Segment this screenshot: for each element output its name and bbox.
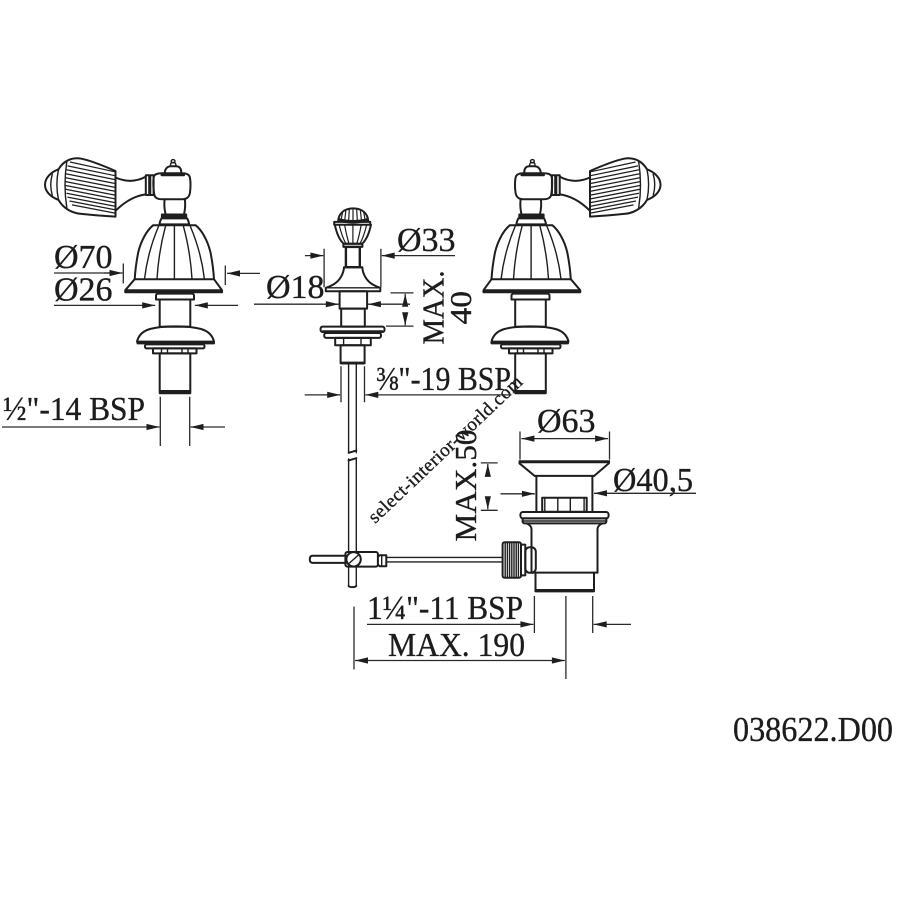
left handle escutcheon base band xyxy=(137,341,216,344)
dim MAX.50 ticks and arrows xyxy=(481,463,498,510)
svg-text:40: 40 xyxy=(443,291,478,325)
svg-text:Ø26: Ø26 xyxy=(54,272,113,309)
drain top flange rim xyxy=(519,460,610,463)
pop-up rod upper segment xyxy=(349,365,357,453)
pop-up rod lower segment xyxy=(349,459,357,551)
dim Ø63 extension lines xyxy=(520,432,610,460)
pivot clamp screw xyxy=(346,552,360,566)
left handle spindle body xyxy=(153,173,190,199)
left handle bell skirt base band xyxy=(124,290,223,293)
pop-up trumpet base xyxy=(326,267,381,291)
left handle crystal knob xyxy=(45,158,116,216)
svg-text:Ø70: Ø70 xyxy=(54,239,113,276)
dim Ø40,5 arrows xyxy=(501,493,535,495)
dim Ø26 leader and arrows xyxy=(54,304,155,306)
dim MAX. 190 leader and arrows xyxy=(355,660,450,662)
dim one and quarter BSP extension lines xyxy=(534,596,592,633)
pop-up knob shoulder xyxy=(334,222,370,225)
rod below clamp xyxy=(349,567,357,586)
dimension annotations xyxy=(2,222,696,679)
svg-text:MAX. 190: MAX. 190 xyxy=(388,627,525,664)
pop-up flange plate xyxy=(321,327,385,332)
drain knurled rod nut xyxy=(503,542,521,578)
svg-text:Ø18: Ø18 xyxy=(266,269,325,306)
pop-up knob collar xyxy=(343,244,362,247)
dim Ø63 arrows xyxy=(521,438,563,440)
drain flange plate 2 xyxy=(523,518,607,523)
svg-text:⅜"-19 BSP: ⅜"-19 BSP xyxy=(376,361,511,398)
dim three eighth BSP extension lines xyxy=(341,366,365,402)
pop-up knob cap xyxy=(338,208,368,220)
left handle threaded tailpiece xyxy=(160,353,191,391)
drain body xyxy=(527,523,603,572)
left handle waist xyxy=(164,199,185,213)
horizontal rod long xyxy=(386,557,502,562)
dim MAX.40 ticks and arrows xyxy=(386,293,414,326)
left handle spindle finial xyxy=(165,166,182,173)
right handle group (mirror of left) xyxy=(482,158,660,394)
pop-up knob body xyxy=(335,225,371,244)
svg-text:1¼"-11 BSP: 1¼"-11 BSP xyxy=(367,590,523,627)
left handle bell xyxy=(135,225,214,279)
pop-up knob cap base band xyxy=(338,220,368,222)
dim half inch BSP leader and arrows xyxy=(2,426,160,428)
dim Ø70 extension lines xyxy=(123,264,225,286)
dim Ø70 leader and arrows xyxy=(54,272,110,274)
drain flange cone xyxy=(519,463,609,476)
middle pop-up control group xyxy=(310,208,503,587)
drain castellated ring xyxy=(542,498,587,512)
pop-up flange plate 2 xyxy=(324,333,381,338)
dim half inch BSP extension lines xyxy=(160,397,189,446)
left handle stem (Ø26) xyxy=(160,300,191,327)
svg-text:Ø33: Ø33 xyxy=(397,222,456,259)
left handle lever neck xyxy=(116,177,146,211)
left handle dome escutcheon xyxy=(137,326,214,341)
svg-text:038622.D00: 038622.D00 xyxy=(733,710,893,749)
left handle base plate xyxy=(145,344,205,348)
dim three eighth BSP leader and arrows xyxy=(305,394,341,396)
pop-up valve body xyxy=(341,345,365,363)
pivot clamp block xyxy=(345,552,378,567)
left handle group xyxy=(45,158,223,394)
horizontal rod left part xyxy=(310,556,346,563)
pop-up locknut xyxy=(335,338,371,345)
left handle spindle top band xyxy=(161,173,185,176)
drain assembly group xyxy=(503,460,610,592)
drain rod cap xyxy=(525,547,536,573)
svg-text:MAX.50: MAX.50 xyxy=(448,430,483,542)
left handle waist dark ring xyxy=(161,214,187,219)
drain rod nut ring xyxy=(521,545,525,576)
left handle bell skirt xyxy=(125,279,222,290)
left handle flare above bell xyxy=(160,218,190,224)
dim Ø18 leader and arrows xyxy=(254,303,339,305)
svg-text:Ø63: Ø63 xyxy=(537,403,596,440)
pop-up Ø18 section xyxy=(340,291,368,308)
pivot connector xyxy=(378,555,386,566)
left handle locknut xyxy=(153,348,197,353)
dim Ø33 leader and arrows xyxy=(305,255,323,257)
dim MAX. 190 extension lines xyxy=(354,596,566,679)
pop-up knob stem xyxy=(346,247,360,267)
svg-text:½"-14 BSP: ½"-14 BSP xyxy=(3,391,145,428)
left handle collar rings xyxy=(146,175,149,195)
dim Ø33 extension lines xyxy=(324,249,381,287)
left handle bell flutes xyxy=(145,226,205,279)
drain tailpiece xyxy=(532,573,598,590)
drain flange plate xyxy=(520,512,608,518)
dim one and quarter BSP leader and arrows xyxy=(367,623,533,625)
drain upper body walls xyxy=(535,476,595,512)
left handle neck collar below bell xyxy=(156,294,194,300)
